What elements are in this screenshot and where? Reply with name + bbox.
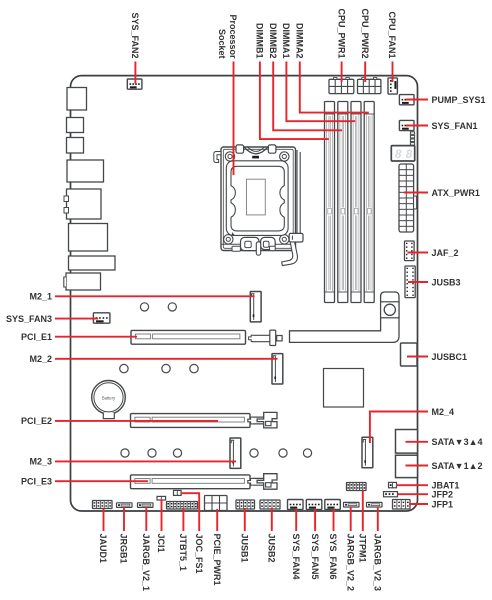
fan header SYS_FAN1	[399, 120, 414, 130]
svg-text:CPU_PWR1: CPU_PWR1	[336, 8, 346, 58]
leader line JARGB_V2_1	[145, 507, 147, 531]
standoff holes row C	[121, 449, 312, 457]
svg-text:M2_3: M2_3	[29, 457, 52, 467]
CPU processor socket	[214, 145, 303, 266]
leader line SATA 1/2	[406, 465, 429, 467]
label DIMMB2	[268, 23, 278, 59]
label SYS_FAN3	[6, 314, 52, 324]
svg-text:PUMP_SYS1: PUMP_SYS1	[432, 95, 486, 105]
label JAUD1	[98, 534, 108, 564]
label JARGB_V2_3	[373, 534, 383, 592]
rear I/O port 2	[67, 118, 84, 133]
label CPU_PWR1	[336, 8, 346, 58]
svg-text:JFP1: JFP1	[432, 499, 454, 509]
label DIMMB1	[255, 23, 265, 59]
PCI_E2 latch	[248, 412, 277, 427]
USB header JUSB3	[405, 266, 415, 298]
label DIMMA1	[281, 23, 291, 59]
label DIMMA2	[295, 23, 305, 59]
standoff holes row B	[120, 364, 198, 372]
svg-text:JUSB2: JUSB2	[267, 534, 277, 563]
label SYS_FAN1	[432, 121, 478, 131]
label PCI_E1	[21, 332, 52, 342]
label CPU_PWR2	[360, 8, 370, 58]
leader line JBAT1	[396, 484, 428, 486]
leader line JUSB3	[408, 281, 428, 283]
header JOC_FS1	[174, 490, 182, 495]
svg-text:ATX_PWR1: ATX_PWR1	[432, 188, 480, 198]
label JARGB_V2_1	[141, 534, 151, 592]
svg-text:JTPM1: JTPM1	[358, 534, 368, 563]
motherboard outline	[71, 76, 418, 511]
SATA ports SATA 1/2	[396, 455, 418, 477]
svg-text:Processor: Processor	[228, 14, 238, 59]
leader line SYS_FAN4	[295, 509, 297, 531]
DIMM slot DIMMB1	[325, 102, 335, 303]
power connector ATX_PWR1 (24-pin)	[399, 164, 417, 232]
svg-text:JARGB_V2_1: JARGB_V2_1	[141, 534, 151, 592]
leader line JAUD1	[103, 509, 105, 532]
svg-text:JCI1: JCI1	[156, 534, 166, 553]
rear I/O port (top, USB block)	[67, 88, 87, 111]
rear I/O port 3	[67, 138, 84, 154]
power connector CPU_PWR2 (8-pin)	[358, 78, 381, 94]
leader line M2_3	[55, 460, 236, 462]
TPM header JTPM1	[347, 483, 367, 491]
label ATX_PWR1	[432, 188, 480, 198]
svg-text:JARGB_V2_2: JARGB_V2_2	[345, 534, 355, 592]
DIMM slot DIMMB2	[338, 102, 348, 303]
rear I/O port 7 (wide)	[69, 256, 116, 270]
M.2 slot M2_4	[362, 437, 373, 467]
leader line Processor Socket	[233, 62, 235, 176]
svg-text:PCI_E1: PCI_E1	[21, 332, 52, 342]
leader line JUSB2	[271, 508, 273, 531]
label JOC_FS1	[194, 534, 204, 574]
fan header SYS_FAN6	[325, 500, 341, 510]
SATA ports SATA 3/4	[396, 430, 418, 454]
svg-text:SYS_FAN4: SYS_FAN4	[291, 534, 301, 580]
leader line M2_2	[55, 358, 278, 360]
svg-text:PCI_E2: PCI_E2	[21, 416, 52, 426]
leader line JARGB_V2_3	[377, 507, 379, 531]
USB header JUSB1	[236, 500, 255, 509]
label SYS_FAN6	[328, 534, 338, 580]
M.2 slot M2_1	[250, 292, 261, 322]
svg-text:JUSB3: JUSB3	[432, 277, 461, 287]
leader line ATX_PWR1	[404, 192, 428, 194]
label JUSB1	[240, 534, 250, 563]
label M2_2	[29, 354, 52, 364]
label JUSB2	[267, 534, 277, 563]
leader line M2_1	[55, 295, 255, 297]
leader line DIMMA1	[286, 62, 355, 122]
leader line M2_4	[370, 412, 428, 444]
leader line PCIE_PWR1	[216, 509, 218, 531]
leader line PCI_E3	[55, 480, 148, 482]
EZ debug LEDs	[410, 132, 414, 145]
fan header SYS_FAN5	[306, 500, 322, 510]
label JFP2	[432, 490, 454, 500]
label JRGB1	[119, 534, 129, 564]
fan header CPU_FAN1	[388, 78, 397, 94]
label PCIE_PWR1	[212, 534, 222, 586]
leader line SYS_FAN2	[134, 62, 136, 84]
audio header JAUD1	[93, 501, 113, 509]
label SYS_FAN5	[310, 534, 320, 580]
chipset block	[324, 369, 364, 408]
PCIe slot PCI_E1	[131, 330, 246, 344]
label JTPM1	[358, 534, 368, 563]
label JCI1	[156, 534, 166, 553]
svg-text:JTBT5_1: JTBT5_1	[178, 534, 188, 572]
power connector PCIE_PWR1	[205, 496, 228, 511]
CMOS battery	[92, 381, 126, 419]
header JAF_2	[405, 241, 415, 261]
jumper JBAT1	[389, 482, 397, 487]
svg-text:PCI_E3: PCI_E3	[21, 477, 52, 487]
ARGB header JARGB_V2_2	[344, 502, 360, 507]
front panel header JFP2	[384, 492, 398, 497]
svg-text:SATA▼1▲2: SATA▼1▲2	[432, 461, 483, 471]
leader line PUMP_SYS1	[406, 99, 428, 101]
leader line DIMMB1	[260, 62, 329, 140]
leader line SATA 3/4	[406, 441, 429, 443]
PCI_E3 latch	[248, 474, 277, 489]
leader line SYS_FAN3	[55, 318, 98, 320]
DIMM slot DIMMA1	[351, 102, 361, 303]
label SATA&#9660;3&#9650;4	[432, 437, 483, 447]
M.2 slot M2_3	[230, 438, 241, 468]
svg-text:Battery: Battery	[102, 395, 116, 400]
label CPU_FAN1	[387, 11, 397, 58]
PCIe slot PCI_E2	[131, 414, 251, 428]
svg-text:SYS_FAN3: SYS_FAN3	[6, 314, 52, 324]
leader line PCI_E2	[55, 420, 218, 422]
leader line JTPM1	[362, 491, 364, 532]
label JAF_2	[432, 248, 459, 258]
ARGB header JARGB_V2_1	[138, 503, 154, 508]
front panel header JFP1	[393, 500, 411, 510]
svg-text:JRGB1: JRGB1	[119, 534, 129, 564]
label SATA&#9660;1&#9650;2	[432, 461, 483, 471]
leader line JFP1	[409, 503, 428, 505]
PCI_E1 latch	[249, 330, 283, 345]
label JARGB_V2_2	[345, 534, 355, 592]
svg-text:JAF_2: JAF_2	[432, 248, 459, 258]
leader line JCI1	[161, 500, 163, 532]
label JUSB3	[432, 277, 461, 287]
label PUMP_SYS1	[432, 95, 486, 105]
rear I/O port 5 (LAN)	[64, 189, 101, 219]
svg-text:SYS_FAN5: SYS_FAN5	[310, 534, 320, 580]
leader line DIMMA2	[300, 62, 369, 113]
leader line JUSBC1	[407, 356, 428, 358]
DIMM slot DIMMA2	[364, 102, 374, 303]
PCIe slot PCI_E3	[131, 475, 251, 489]
leader line SYS_FAN6	[333, 509, 335, 531]
svg-text:DIMMA1: DIMMA1	[281, 23, 291, 59]
svg-text:Socket: Socket	[217, 29, 227, 59]
fan header SYS_FAN3	[93, 313, 110, 323]
leader line JUSB1	[244, 508, 246, 531]
label Processor Socket	[217, 14, 238, 59]
leader line SYS_FAN1	[406, 125, 428, 127]
USB header JUSB2	[260, 500, 280, 509]
fan header SYS_FAN4	[288, 500, 304, 510]
svg-text:SYS_FAN6: SYS_FAN6	[328, 534, 338, 580]
svg-text:JOC_FS1: JOC_FS1	[194, 534, 204, 574]
leader line JARGB_V2_2	[350, 507, 352, 531]
label JBAT1	[432, 481, 460, 491]
RGB header JRGB1	[117, 503, 133, 508]
power connector CPU_PWR1 (8-pin)	[329, 78, 354, 94]
svg-text:M2_2: M2_2	[29, 354, 52, 364]
USB-C header JUSBC1	[401, 343, 418, 366]
svg-text:DIMMB1: DIMMB1	[255, 23, 265, 59]
svg-text:JUSB1: JUSB1	[240, 534, 250, 563]
fan header SYS_FAN2	[127, 79, 142, 89]
svg-text:M2_1: M2_1	[29, 292, 52, 302]
M.2 slot M2_2	[272, 354, 283, 384]
leader line JRGB1	[123, 507, 125, 531]
svg-text:SYS_FAN1: SYS_FAN1	[432, 121, 478, 131]
svg-text:JFP2: JFP2	[432, 490, 454, 500]
standoff holes row A	[140, 303, 176, 311]
svg-text:CPU_FAN1: CPU_FAN1	[387, 11, 397, 58]
leader line JFP2	[398, 493, 428, 495]
svg-text:SYS_FAN2: SYS_FAN2	[130, 12, 140, 58]
leader line CPU_PWR1	[341, 62, 343, 83]
label SYS_FAN4	[291, 534, 301, 580]
leader line CPU_FAN1	[392, 62, 394, 83]
leader line PCI_E1	[55, 336, 137, 338]
svg-text:CPU_PWR2: CPU_PWR2	[360, 8, 370, 58]
leader line JOC_FS1	[181, 493, 199, 531]
svg-text:8: 8	[395, 149, 402, 161]
label JUSBC1	[432, 352, 468, 362]
leader line JAF_2	[408, 252, 429, 254]
label PCI_E3	[21, 477, 52, 487]
label M2_3	[29, 457, 52, 467]
label M2_1	[29, 292, 52, 302]
rear I/O port 6 (USB block)	[69, 224, 108, 252]
svg-text:JARGB_V2_3: JARGB_V2_3	[373, 534, 383, 592]
svg-text:JAUD1: JAUD1	[98, 534, 108, 564]
label JFP1	[432, 499, 454, 509]
svg-text:DIMMB2: DIMMB2	[268, 23, 278, 59]
leader line JTBT5_1	[182, 508, 184, 531]
label JTBT5_1	[178, 534, 188, 572]
label SYS_FAN2	[130, 12, 140, 58]
leader line DIMMB2	[273, 62, 342, 131]
thunderbolt header JTBT5_1	[167, 502, 198, 510]
svg-text:M2_4: M2_4	[432, 407, 455, 417]
chassis intrusion JCI1	[157, 496, 166, 500]
pump header PUMP_SYS1	[399, 95, 414, 105]
leader line SYS_FAN5	[314, 509, 316, 531]
svg-text:JUSBC1: JUSBC1	[432, 352, 468, 362]
svg-text:8: 8	[406, 149, 413, 161]
ARGB header JARGB_V2_3	[367, 502, 383, 507]
M.2 plate with screw (heatpipe elbow)	[290, 292, 400, 342]
rear I/O port 4 (USB block)	[67, 160, 104, 182]
label PCI_E2	[21, 416, 52, 426]
label M2_4	[432, 407, 455, 417]
leader line CPU_PWR2	[364, 62, 366, 83]
debug code display (88)	[391, 146, 414, 162]
rear I/O port 8 (audio)	[64, 273, 101, 290]
svg-text:PCIE_PWR1: PCIE_PWR1	[212, 534, 222, 586]
svg-text:DIMMA2: DIMMA2	[295, 23, 305, 59]
svg-text:SATA▼3▲4: SATA▼3▲4	[432, 437, 483, 447]
